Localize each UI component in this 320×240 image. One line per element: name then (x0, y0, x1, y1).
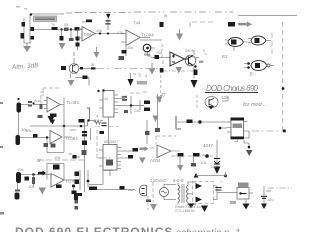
svg-text:DOD Chorus 690: DOD Chorus 690 (206, 84, 259, 93)
svg-text:.05: .05 (63, 23, 68, 27)
svg-text:10k: 10k (25, 128, 31, 133)
svg-text:084: 084 (84, 32, 92, 37)
svg-text:10k: 10k (54, 155, 60, 160)
svg-text:A004: A004 (150, 158, 161, 163)
svg-text:B2: B2 (222, 54, 228, 59)
svg-text:for mod ...: for mod ... (243, 102, 268, 108)
svg-text:.047: .047 (120, 95, 127, 99)
svg-text:nnn: nnn (70, 128, 76, 132)
svg-text:4047: 4047 (203, 143, 214, 148)
svg-text:120VAC: 120VAC (150, 178, 167, 183)
svg-text:Aud: Aud (34, 98, 41, 103)
svg-text:TL084: TL084 (141, 33, 154, 38)
svg-text:10k: 10k (200, 160, 206, 165)
svg-text:TL084: TL084 (66, 100, 79, 105)
svg-text:1M: 1M (157, 51, 162, 55)
svg-text:DOD 690 ELECTRONICS: DOD 690 ELECTRONICS (15, 225, 173, 232)
svg-text:10k: 10k (28, 184, 34, 189)
svg-text:10u: 10u (210, 165, 216, 169)
svg-text:10u: 10u (267, 198, 273, 202)
svg-text:47k: 47k (117, 31, 123, 35)
svg-text:w: w (202, 152, 205, 157)
svg-text:M: M (105, 97, 108, 101)
svg-text:47: 47 (160, 93, 166, 99)
svg-text:22k: 22k (134, 109, 140, 113)
svg-text:1u: 1u (51, 23, 55, 27)
svg-text:w: w (37, 158, 41, 164)
svg-text:TL084: TL084 (65, 136, 78, 141)
svg-text:10k: 10k (17, 167, 23, 172)
svg-text:10k: 10k (96, 29, 102, 33)
svg-text:MN3007: MN3007 (104, 140, 118, 144)
svg-text:5: 5 (250, 72, 253, 78)
svg-text:9-0-9: 9-0-9 (173, 178, 184, 183)
svg-text:273-1365 9v: 273-1365 9v (175, 209, 195, 213)
svg-text:744: 744 (133, 21, 141, 26)
svg-text:10k: 10k (127, 46, 133, 50)
svg-text:3904: 3904 (185, 49, 193, 53)
svg-text:1n: 1n (68, 152, 72, 156)
svg-text:schematic p. 1: schematic p. 1 (176, 228, 240, 232)
